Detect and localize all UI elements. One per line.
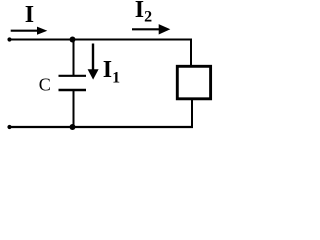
wire: top horizontal bbox=[8, 39, 192, 41]
current arrow I2 (shaft) bbox=[132, 28, 160, 30]
capacitor C top plate bbox=[59, 75, 87, 77]
wire: right vertical (load to bottom wire) bbox=[191, 99, 193, 128]
svg-text:I2: I2 bbox=[135, 0, 152, 25]
node: left top terminal bbox=[7, 37, 11, 41]
wire: capacitor top lead bbox=[73, 40, 75, 75]
svg-text:I: I bbox=[25, 2, 34, 28]
wire: capacitor bottom lead bbox=[73, 91, 75, 127]
load resistor (rectangle) bbox=[177, 66, 210, 99]
node: top junction bbox=[70, 37, 76, 43]
current arrow I1 (shaft) bbox=[92, 44, 94, 71]
node: bottom junction bbox=[70, 124, 76, 130]
wire: right vertical (top wire to load) bbox=[190, 39, 192, 67]
node: left bottom terminal bbox=[7, 125, 11, 129]
capacitor C bottom plate bbox=[59, 89, 87, 91]
wire: bottom horizontal bbox=[8, 126, 193, 128]
current arrow I2 (head) bbox=[159, 24, 171, 34]
svg-text:I1: I1 bbox=[103, 57, 120, 87]
current arrow I1 (head) bbox=[88, 69, 99, 79]
svg-text:C: C bbox=[39, 74, 51, 94]
current arrow I (shaft) bbox=[11, 30, 38, 32]
current arrow I (head) bbox=[37, 27, 47, 35]
